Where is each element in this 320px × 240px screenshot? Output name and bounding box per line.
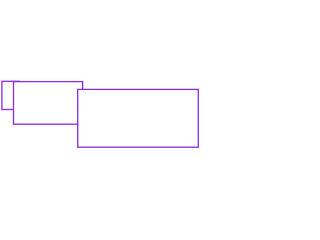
small box (back) [2, 81, 20, 109]
large box (front) [78, 89, 199, 147]
medium box (middle) [14, 82, 83, 125]
wireframe diagram of three overlapping boxes [0, 0, 200, 200]
